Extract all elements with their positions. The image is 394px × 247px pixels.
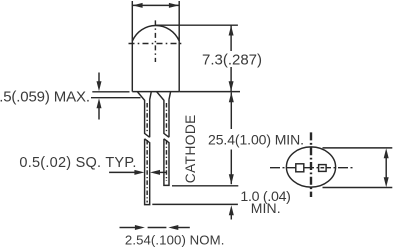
25.4 dimension line upper segment [230, 92, 232, 129]
left lead (anode) outline with flare and break [137, 92, 151, 205]
1.5 MAX lower reference line [91, 97, 141, 99]
svg-text:0.5(.02) SQ. TYP.: 0.5(.02) SQ. TYP. [19, 155, 136, 171]
1.0 MIN up arrow shaft [230, 214, 232, 220]
rear view horizontal centerline [270, 167, 354, 169]
right lead centerline [165, 103, 167, 133]
7.3 dimension line upper segment [230, 25, 232, 51]
25.4 dimension line lower segment [230, 150, 232, 185]
top dimension arrowhead left [133, 3, 143, 8]
1.5 MAX up arrowhead [97, 98, 102, 108]
rear diameter arrowhead down [384, 177, 389, 187]
25.4 dimension arrowhead down [229, 174, 234, 184]
body bottom edge [132, 91, 179, 93]
top diameter dimension line [133, 4, 179, 6]
dome horizontal centerline [129, 43, 184, 45]
svg-text:1.5(.059) MAX.: 1.5(.059) MAX. [0, 88, 90, 105]
right lead (cathode) outline with flare and break [157, 92, 171, 186]
2.54 arrowhead pointing left [168, 225, 178, 230]
25.4 dimension arrowhead up [229, 92, 234, 102]
reference line from dome top to 7.3 dimension [156, 24, 238, 26]
svg-text:7.3(.287): 7.3(.287) [202, 52, 262, 69]
svg-text:CATHODE: CATHODE [183, 115, 198, 184]
rear view diameter dimension shaft [385, 157, 387, 179]
0.5 SQ opposing arrow shaft [160, 171, 167, 173]
7.3 dimension arrowhead up [229, 26, 234, 36]
LED dome arc [132, 25, 179, 41]
reference line from body bottom to dimensions [179, 91, 240, 93]
LED body front view: extension line right [178, 1, 180, 92]
2.54 dimension middle segment [148, 227, 167, 229]
svg-text:2.54(.100) NOM.: 2.54(.100) NOM. [125, 233, 224, 247]
1.5 MAX down arrow shaft [98, 73, 100, 83]
reference line from anode lead tip [152, 203, 238, 205]
reference line from cathode lead tip [172, 185, 238, 187]
LED body front view: extension line left [131, 1, 133, 92]
rear view right square lead [319, 165, 327, 172]
right square inner dash [321, 167, 325, 169]
2.54 dimension left tail [120, 227, 136, 229]
2.54 dimension right tail [178, 227, 190, 229]
dome vertical centerline [154, 20, 156, 62]
rear view bold vertical centerline [310, 132, 312, 197]
rear view top reference line [323, 147, 393, 149]
1.5 MAX up arrow shaft [98, 108, 100, 120]
top dimension arrowhead right [169, 3, 179, 8]
7.3 dimension line lower segment [230, 67, 232, 91]
rear diameter arrowhead up [384, 148, 389, 158]
1.5 MAX down arrowhead [97, 81, 102, 91]
left lead centerline [146, 103, 148, 133]
0.5 SQ arrowhead pointing right [134, 170, 144, 175]
0.5 SQ arrowhead pointing left [150, 170, 160, 175]
svg-text:MIN.: MIN. [251, 200, 281, 216]
0.5 SQ leader arrow shaft left [109, 171, 135, 173]
rear view left square lead [296, 164, 304, 172]
1.5 MAX upper reference line [92, 91, 129, 93]
rear view bottom reference line [323, 187, 393, 189]
1.0 MIN up arrowhead [229, 205, 234, 215]
7.3 dimension arrowhead down [229, 81, 234, 91]
svg-text:25.4(1.00) MIN.: 25.4(1.00) MIN. [208, 131, 304, 147]
2.54 arrowhead pointing right [135, 225, 145, 230]
rear view ellipse [286, 147, 335, 187]
